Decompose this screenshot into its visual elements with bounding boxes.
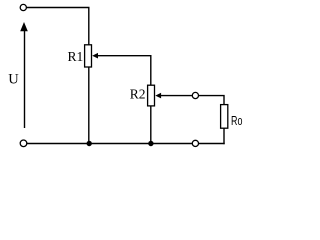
R2 wiper arrow [155, 93, 161, 99]
junction dot at R1 / bottom rail [87, 141, 92, 146]
potentiometer R2 body [148, 85, 155, 106]
potentiometer R1 body [85, 45, 92, 67]
junction dot at R2 / bottom rail [148, 141, 153, 146]
wire R0 bottom lead [223, 128, 225, 144]
wire R2 bottom lead [150, 106, 152, 144]
svg-text:R2: R2 [130, 86, 146, 101]
wire bottom rail [27, 143, 225, 145]
voltage arrow U [20, 22, 28, 128]
terminal (output, bottom rail) [192, 140, 198, 146]
wire from R2 wiper to corner above R0 [160, 96, 225, 105]
svg-text:Ro: Ro [231, 113, 242, 128]
resistor R0 body [221, 105, 228, 129]
R1 wiper arrow [92, 53, 98, 59]
wire top from terminal to corner above R1 [27, 8, 89, 45]
svg-text:U: U [8, 72, 19, 88]
svg-text:R1: R1 [68, 49, 84, 64]
terminal (input, top-left) [20, 4, 26, 10]
wire from R1 wiper to corner above R2 [97, 56, 151, 85]
terminal (output, on wiper wire) [192, 92, 198, 98]
terminal (input, bottom-left) [20, 140, 27, 147]
wire R1 bottom lead [88, 67, 90, 144]
